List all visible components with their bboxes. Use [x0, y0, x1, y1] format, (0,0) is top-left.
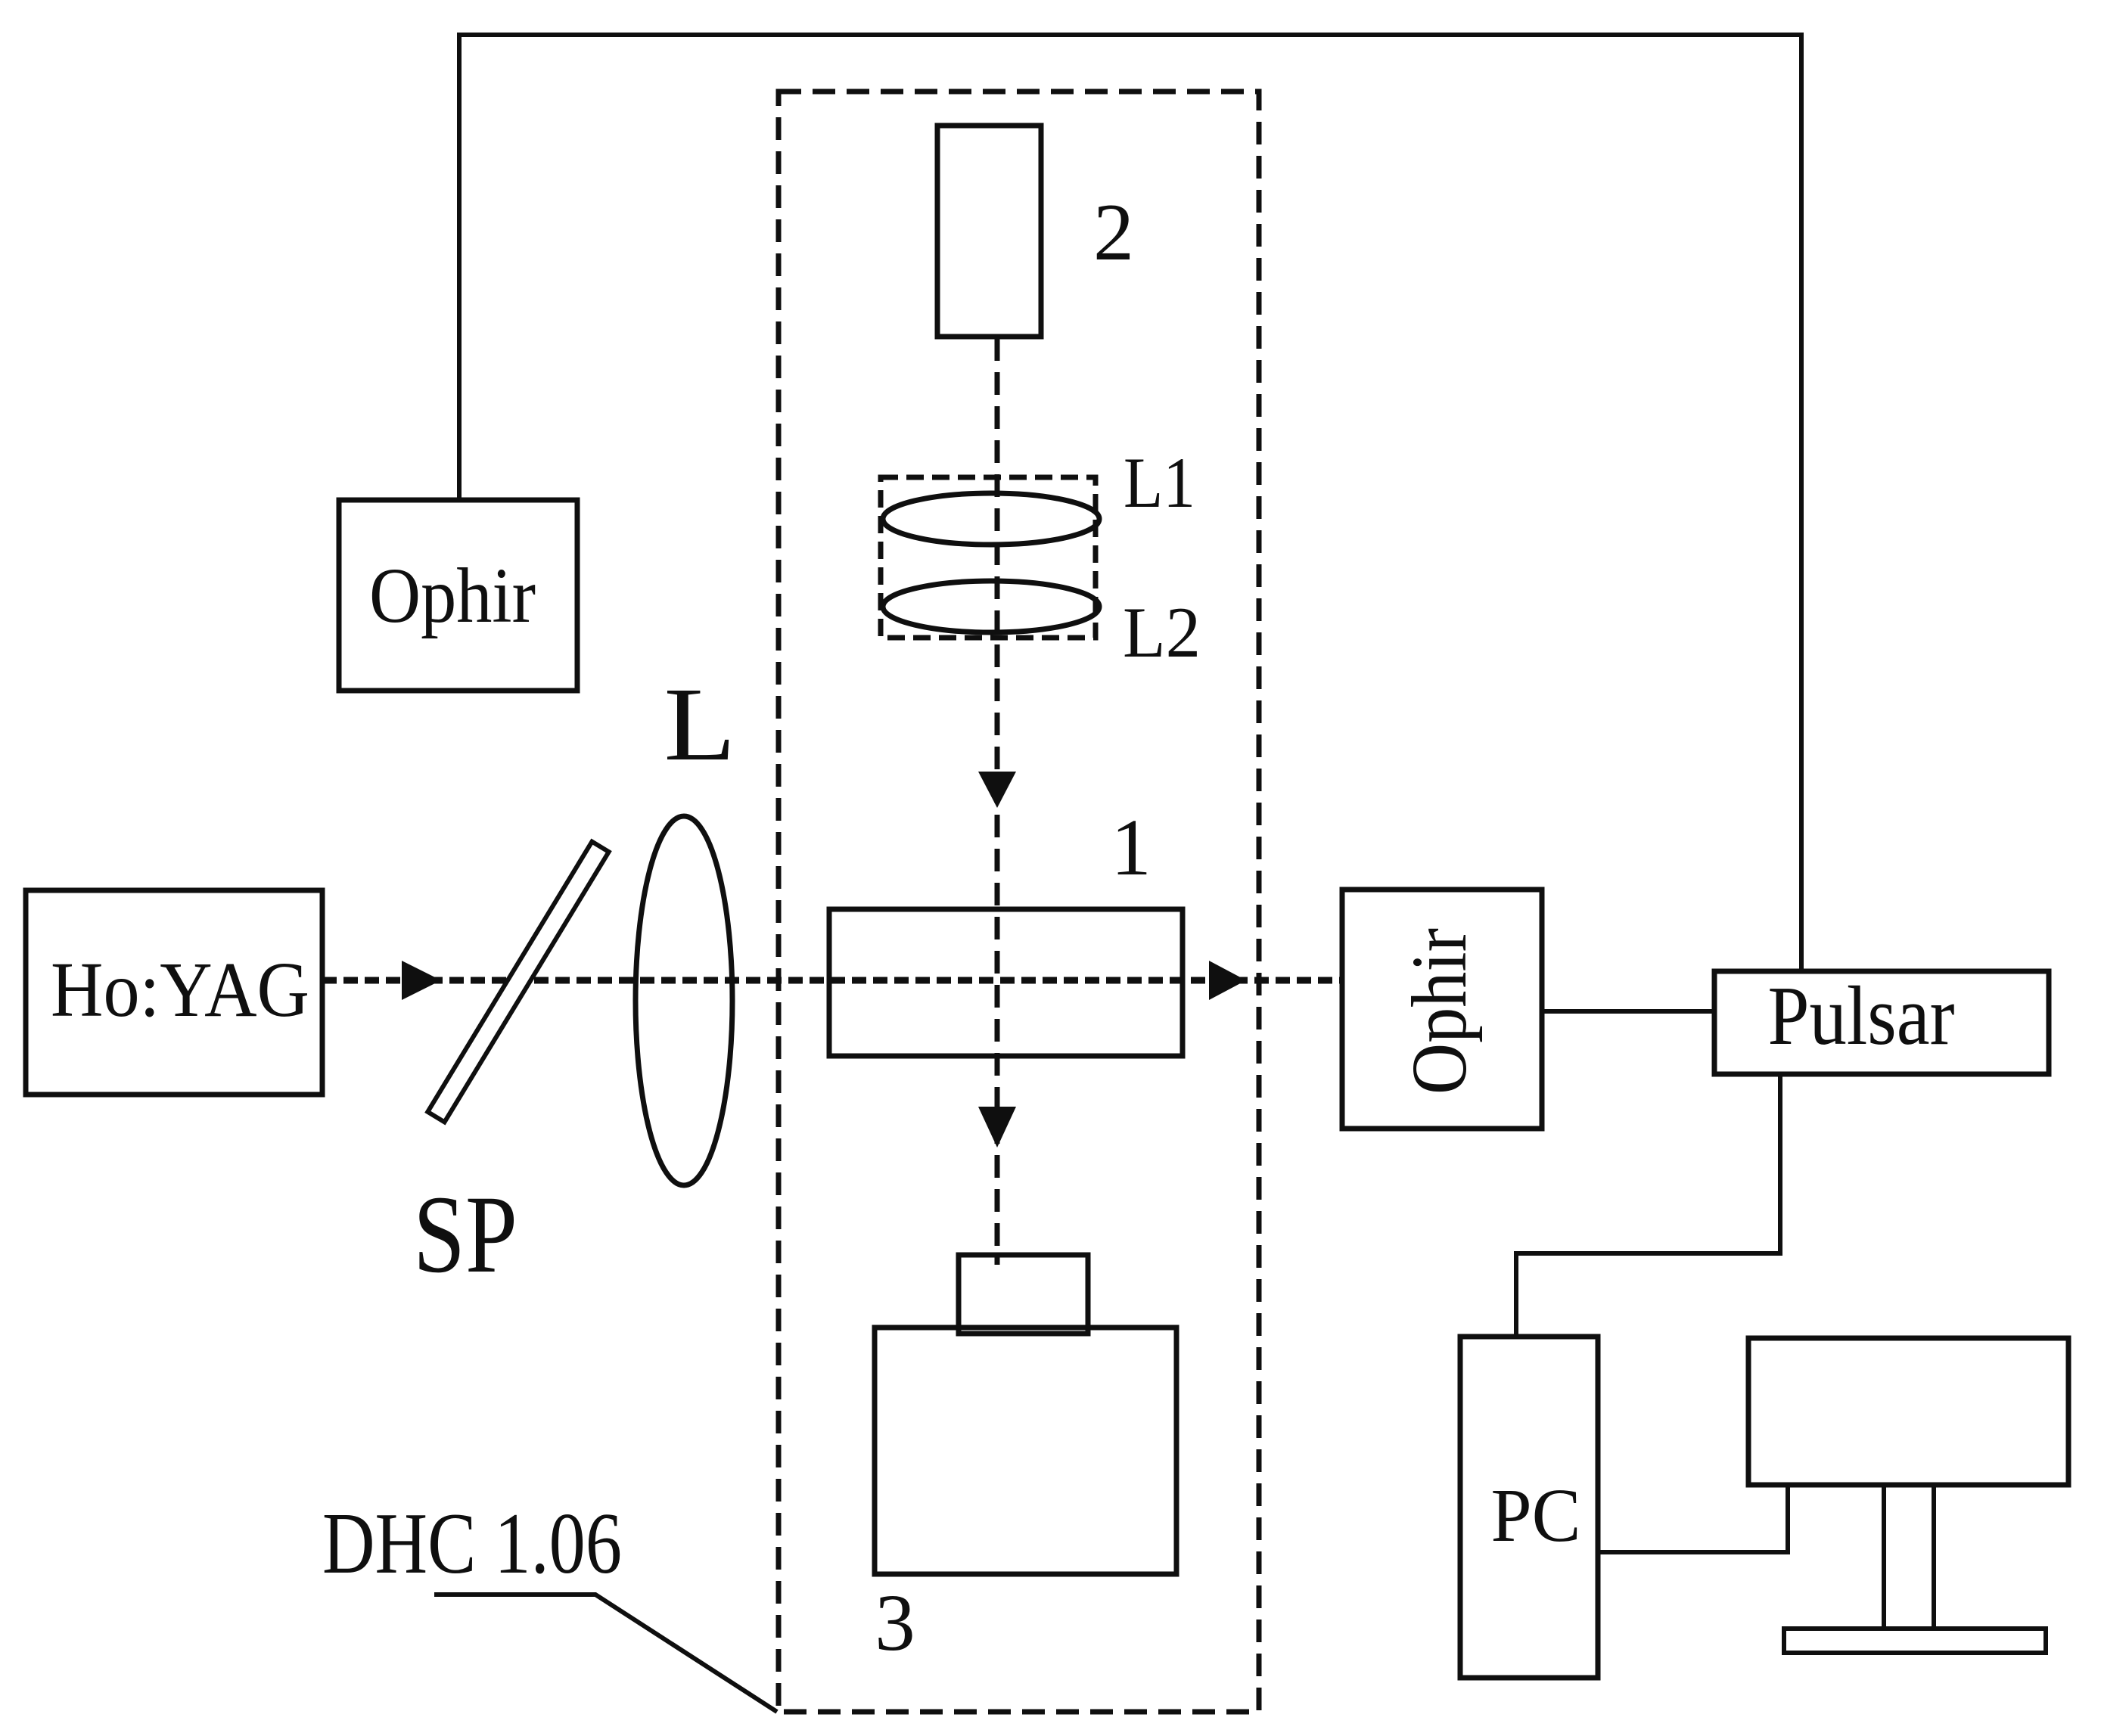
svg-text:Pulsar: Pulsar — [1768, 970, 1955, 1063]
svg-text:1: 1 — [1111, 803, 1152, 893]
svg-text:SP: SP — [413, 1172, 517, 1296]
svg-text:Ophir: Ophir — [369, 552, 536, 639]
svg-text:Ophir: Ophir — [1396, 928, 1483, 1095]
svg-text:Ho:YAG: Ho:YAG — [51, 946, 309, 1033]
svg-text:L: L — [664, 666, 736, 783]
svg-text:2: 2 — [1093, 188, 1134, 278]
svg-text:3: 3 — [875, 1579, 915, 1668]
svg-text:DHC 1.06: DHC 1.06 — [322, 1495, 622, 1592]
svg-text:L2: L2 — [1123, 592, 1201, 672]
svg-text:PC: PC — [1491, 1473, 1581, 1557]
svg-text:L1: L1 — [1124, 443, 1195, 523]
